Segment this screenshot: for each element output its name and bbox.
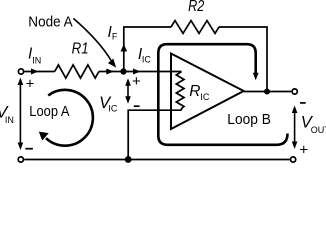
loop B arrow (158, 44, 287, 145)
node A junction dot (120, 68, 126, 74)
svg-text:R2: R2 (188, 0, 204, 15)
loop A arrow (46, 90, 93, 146)
current arrow I_IN (31, 69, 39, 75)
voltage arrow V_IN (19, 80, 21, 147)
svg-text:Loop A: Loop A (29, 104, 69, 120)
current arrow into node A (106, 69, 114, 75)
svg-text:IN: IN (5, 115, 14, 125)
terminal: input top (18, 69, 23, 74)
svg-text:R: R (189, 83, 200, 100)
minus sign V_OUT (300, 102, 306, 104)
junction dot output node (264, 89, 270, 95)
svg-text:IC: IC (200, 92, 210, 102)
resistor R_IC inside op-amp (176, 72, 184, 111)
svg-text:+: + (299, 142, 308, 159)
svg-text:Node A: Node A (28, 15, 73, 31)
terminal: output bottom (291, 157, 296, 162)
voltage arrow V_OUT (294, 108, 296, 147)
wire: non-inverting input L from bottom rail (128, 110, 181, 159)
junction dot bottom rail (125, 156, 132, 163)
terminal: output top (292, 89, 297, 94)
resistor R1 (55, 65, 99, 78)
current arrow I_IC (133, 69, 141, 75)
op-amp U1 triangle (171, 54, 244, 130)
wire: feedback vertical from node A up (123, 27, 125, 72)
wire: R2 to right corner, down to output node (219, 27, 267, 92)
voltage arrow V_IC (127, 81, 129, 102)
svg-text:+: + (26, 76, 35, 93)
terminal: input bottom (18, 157, 23, 162)
current arrow I_F (121, 44, 128, 52)
wire: R1 to node A (99, 71, 121, 73)
svg-text:IC: IC (142, 55, 152, 65)
svg-text:R1: R1 (72, 40, 89, 57)
pointer arrow from Node A label to node A (73, 18, 111, 61)
svg-text:IC: IC (108, 103, 118, 113)
svg-text:OUT: OUT (311, 125, 326, 135)
wire: bottom rail (24, 159, 290, 161)
svg-text:Loop B: Loop B (227, 112, 271, 128)
wire: input to R1 (24, 71, 54, 73)
wire: feedback top run to R2 (123, 26, 171, 28)
svg-text:F: F (112, 32, 118, 42)
svg-text:+: + (132, 73, 141, 90)
minus sign V_IN (25, 148, 33, 150)
minus sign V_IC (134, 105, 140, 107)
svg-text:IN: IN (32, 55, 41, 65)
wire: op-amp output to terminal (244, 91, 292, 93)
wire: inverting input from node A into op-amp (124, 71, 182, 73)
resistor R2 (171, 21, 219, 34)
